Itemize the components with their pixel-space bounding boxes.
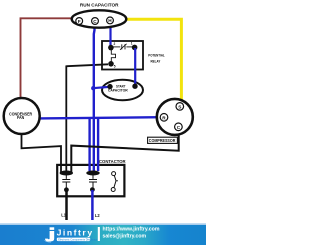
svg-text:RELAY: RELAY bbox=[151, 59, 161, 63]
wire black: condenser fan to contactor T1 bbox=[22, 133, 62, 172]
logo J mark stem bbox=[45, 231, 54, 241]
relay terminal 2 bbox=[108, 45, 114, 51]
contactor T1 lower terminal dot bbox=[64, 187, 69, 192]
svg-text:F: F bbox=[78, 19, 81, 24]
logo J swoosh bbox=[44, 240, 52, 243]
logo tagline strip bbox=[57, 238, 90, 242]
svg-text:S: S bbox=[178, 104, 181, 109]
contactor T2 lower terminal dot bbox=[90, 187, 95, 192]
footer light strip bbox=[0, 223, 206, 225]
compressor terminal S bbox=[176, 103, 184, 111]
start capacitor right terminal bbox=[132, 84, 137, 89]
svg-text:C: C bbox=[177, 125, 181, 130]
svg-text:1: 1 bbox=[131, 42, 133, 46]
relay terminal 5 bbox=[108, 61, 114, 67]
wire yellow: run capacitor H to compressor S bbox=[126, 19, 181, 104]
compressor label box bbox=[148, 137, 178, 143]
contactor coil bbox=[112, 172, 116, 176]
svg-text:POTENTIAL: POTENTIAL bbox=[148, 53, 165, 57]
junction node dot bbox=[91, 86, 95, 90]
wire black: compressor C to contactor T1 bbox=[71, 129, 178, 173]
wire red: run capacitor F to condenser fan bbox=[21, 18, 74, 99]
contactor T1 blob bbox=[60, 171, 73, 176]
footer banner bbox=[0, 225, 206, 245]
start capacitor left terminal bbox=[107, 84, 112, 89]
condenser fan motor bbox=[4, 98, 40, 134]
svg-text:L2: L2 bbox=[95, 213, 100, 218]
svg-text:L1: L1 bbox=[61, 213, 66, 218]
terminal C bbox=[92, 18, 99, 25]
svg-text:https://www.jinftry.com: https://www.jinftry.com bbox=[103, 227, 160, 233]
compressor terminal R bbox=[160, 114, 168, 122]
logo J mark dot bbox=[50, 227, 55, 230]
svg-text:CONTACTOR: CONTACTOR bbox=[99, 159, 126, 164]
wire blue drop right: bus to contactor T2 bbox=[97, 118, 99, 171]
relay contact 2-1 bbox=[113, 46, 120, 48]
wire black: relay terminal 5 to contactor T1 bbox=[66, 64, 108, 172]
run capacitor ellipse bbox=[72, 10, 127, 27]
potential relay box bbox=[102, 41, 143, 70]
wire blue: junction to start capacitor left terminal bbox=[93, 87, 109, 88]
contactor T2 contact plates bbox=[92, 175, 94, 179]
relay terminal 1 bbox=[132, 45, 138, 51]
svg-text:Electronic Components Distribu: Electronic Components Distributor bbox=[58, 237, 97, 241]
wire blue drop left: bus to contactor T2 bbox=[88, 118, 90, 171]
wire blue: run capacitor C down through junction and bus to contactor T2 bbox=[93, 24, 96, 171]
svg-text:RUN CAPACITOR: RUN CAPACITOR bbox=[80, 2, 119, 7]
svg-text:COMPRESSOR: COMPRESSOR bbox=[149, 138, 176, 143]
contactor T2 blob bbox=[86, 171, 99, 176]
wire L2 bbox=[91, 190, 94, 220]
wire blue bus: condenser fan to compressor R bbox=[39, 117, 161, 118]
svg-text:sales@jinftry.com: sales@jinftry.com bbox=[103, 234, 147, 240]
svg-text:2: 2 bbox=[114, 42, 116, 46]
relay coil bbox=[111, 50, 115, 62]
compressor terminal C bbox=[175, 123, 183, 131]
terminal H bbox=[107, 17, 114, 24]
terminal F bbox=[76, 18, 83, 25]
svg-text:CAPACITOR: CAPACITOR bbox=[108, 88, 128, 93]
svg-text:5: 5 bbox=[114, 64, 116, 68]
compressor motor bbox=[157, 99, 193, 135]
contactor box bbox=[57, 165, 124, 196]
start capacitor ellipse bbox=[102, 80, 143, 100]
contactor T1 contact plates bbox=[65, 175, 67, 179]
svg-text:Jinftry: Jinftry bbox=[57, 227, 93, 237]
svg-text:FAN: FAN bbox=[17, 115, 24, 120]
footer separator bar bbox=[98, 227, 100, 241]
wire blue: H terminal to relay terminal 2 bbox=[109, 24, 111, 48]
wire L1 bbox=[65, 190, 68, 220]
wire blue: relay terminal 1 down to start capacitor right terminal bbox=[134, 48, 136, 86]
